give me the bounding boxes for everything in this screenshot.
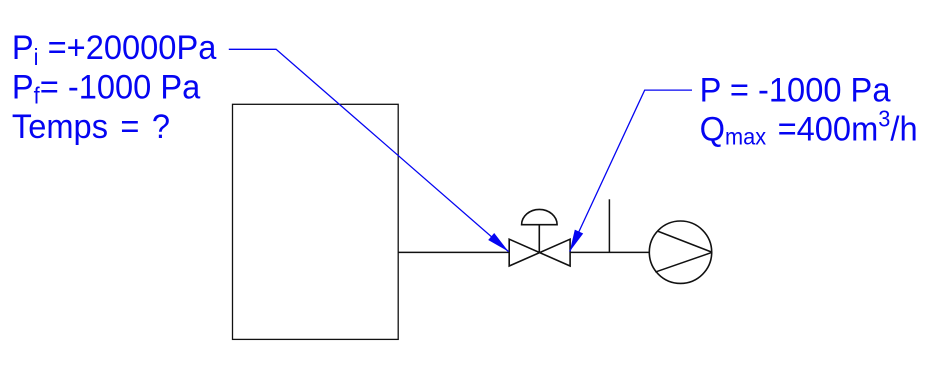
pressure tap line (608, 199, 610, 252)
leader line right (to valve outlet) (570, 90, 692, 251)
pump chord upper (657, 231, 711, 252)
pump chord lower (655, 253, 711, 273)
svg-text:P = -1000 Pa: P = -1000 Pa (700, 72, 891, 110)
pump P1 (circle) (649, 221, 711, 283)
valve V1 (bowtie body) (509, 239, 570, 266)
leader line left (to valve inlet) (229, 49, 509, 251)
tank T1 (rectangle vessel) (233, 104, 399, 339)
svg-text:Pf= -1000 Pa: Pf= -1000 Pa (12, 69, 201, 109)
svg-text:Temps = ?: Temps = ? (12, 108, 170, 146)
arrowhead left leader (488, 233, 508, 252)
valve actuator dome (522, 209, 558, 224)
wire: pipe from tank to valve (398, 251, 509, 253)
label group (condensed text) (12, 29, 918, 150)
wire: pipe from valve to pump (570, 251, 649, 253)
svg-text:Pi =+20000Pa: Pi =+20000Pa (12, 29, 217, 70)
valve stem (538, 225, 540, 253)
arrowhead right leader (570, 230, 584, 252)
